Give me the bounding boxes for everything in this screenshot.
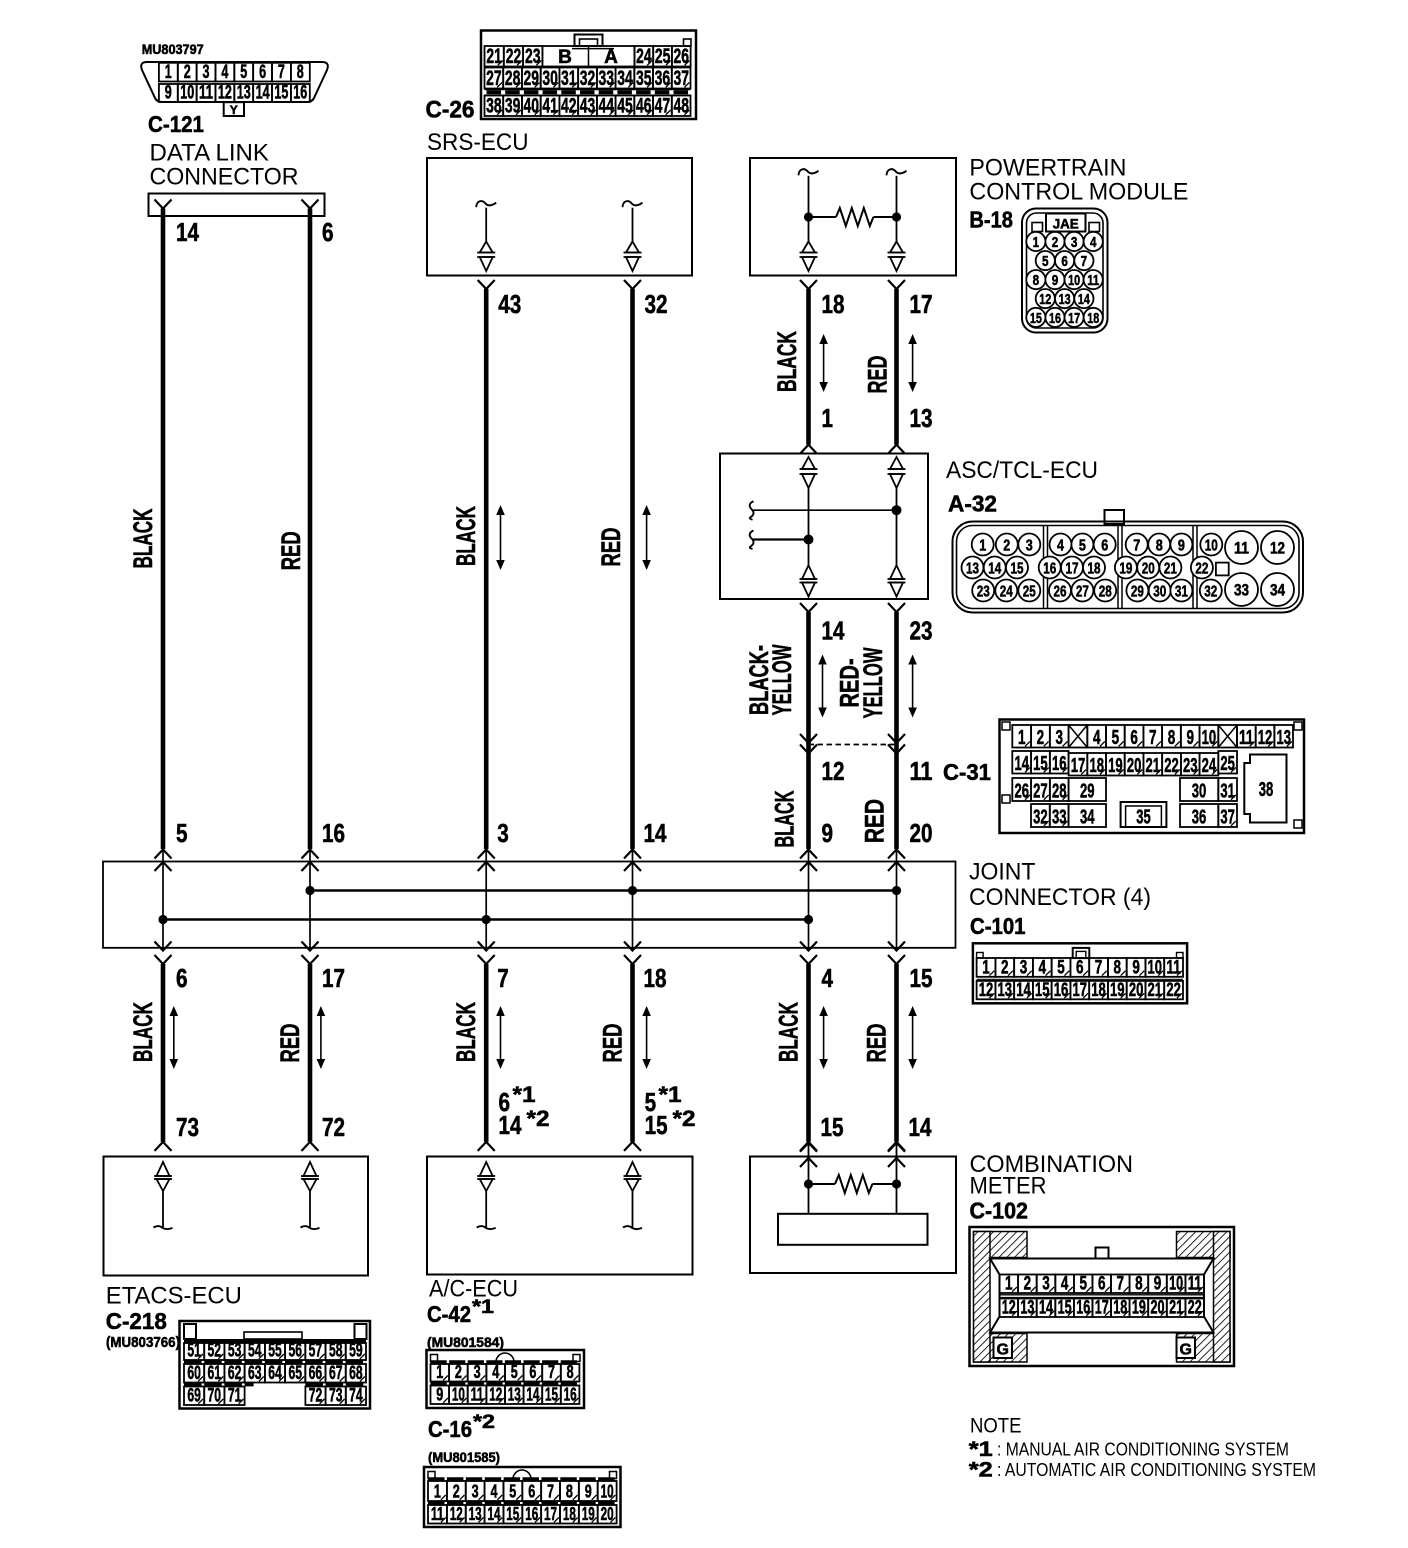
connector A-32 pin diagram [953, 510, 1304, 613]
junction dot bus upper col4 [628, 886, 637, 895]
svg-text:23: 23 [977, 584, 990, 601]
label C-16*2 [428, 1412, 495, 1442]
label C-42*1 [427, 1297, 495, 1327]
svg-text:17: 17 [322, 963, 345, 993]
svg-text:5: 5 [1079, 538, 1086, 555]
svg-text:3: 3 [474, 1362, 481, 1382]
svg-text:5: 5 [1057, 957, 1065, 978]
wire thin inside joint connector x163 [162, 850, 164, 951]
ASC pin 14 connector mark [800, 603, 817, 612]
wire RED PCM17 to ASC13 [894, 289, 899, 445]
arrow lower x310 [320, 1012, 322, 1063]
svg-text:10: 10 [1169, 1274, 1183, 1295]
svg-text:20: 20 [1151, 1298, 1165, 1319]
svg-text:17: 17 [910, 289, 933, 319]
svg-text:15: 15 [910, 963, 933, 993]
svg-text:13: 13 [1276, 727, 1291, 749]
svg-text:48: 48 [673, 95, 689, 118]
junction dot comb meter left [804, 1179, 813, 1188]
connector C-101 pin diagram [973, 943, 1187, 1003]
joint crossing marks bottom edge x163 [155, 942, 172, 965]
wire label RED-YELLOW [835, 647, 888, 718]
ECU entry mark x486.2 [478, 1142, 495, 1151]
svg-text:13: 13 [1020, 1298, 1034, 1319]
resistor inside combination meter [809, 1175, 897, 1193]
svg-text:18: 18 [644, 963, 667, 993]
PCM pin 18 connector mark [800, 280, 817, 289]
svg-text:39: 39 [505, 95, 521, 118]
svg-text:35: 35 [636, 67, 652, 90]
svg-text:27: 27 [1076, 584, 1089, 601]
svg-text:24: 24 [1202, 755, 1217, 777]
wire BLACK-YELLOW ASC14 to C-31 [806, 612, 811, 745]
svg-text:35: 35 [1136, 807, 1151, 829]
svg-text:11: 11 [1166, 957, 1181, 978]
pin label 14*2 col3 [499, 1106, 550, 1140]
svg-text:45: 45 [617, 95, 633, 118]
svg-text:3: 3 [1071, 234, 1078, 251]
svg-text:BLACK: BLACK [770, 790, 800, 847]
svg-text:C-42: C-42 [427, 1301, 471, 1327]
ASC internal stub wire lower [750, 531, 809, 550]
svg-text:22: 22 [506, 45, 522, 68]
svg-text:23: 23 [910, 616, 933, 646]
svg-text:8: 8 [1156, 538, 1163, 555]
svg-text:8: 8 [1114, 957, 1122, 978]
arrow col5 mid [822, 661, 824, 712]
connector C-42 pin diagram [427, 1350, 585, 1408]
svg-text:18: 18 [1087, 310, 1099, 327]
svg-text:3: 3 [203, 62, 210, 83]
svg-text:29: 29 [1131, 584, 1144, 601]
svg-text:41: 41 [542, 95, 558, 118]
svg-text:JOINT: JOINT [969, 859, 1036, 886]
svg-text:14: 14 [988, 561, 1001, 578]
powertrain control module box [750, 158, 956, 276]
svg-text:2: 2 [453, 1482, 460, 1502]
wire thin inside joint connector x896.5 [896, 850, 898, 951]
svg-text:*2: *2 [673, 1106, 696, 1131]
joint bus bar lower [163, 918, 809, 920]
svg-text:20: 20 [1127, 755, 1142, 777]
svg-text:5: 5 [509, 1482, 516, 1502]
svg-text:7: 7 [548, 1362, 555, 1382]
svg-text:38: 38 [1259, 779, 1274, 801]
comb meter internal wire right [896, 1143, 898, 1214]
ASC internal pin symbol right [888, 457, 906, 597]
svg-text:SRS-ECU: SRS-ECU [427, 129, 529, 156]
svg-text:37: 37 [1220, 807, 1235, 829]
svg-text:17: 17 [1071, 755, 1086, 777]
svg-text:33: 33 [598, 67, 614, 90]
svg-text:18: 18 [1089, 755, 1104, 777]
svg-text:28: 28 [505, 67, 521, 90]
svg-text:14: 14 [1016, 980, 1031, 1001]
arrow col6 mid [912, 661, 914, 712]
connector C-102 pin diagram [970, 1227, 1235, 1366]
svg-text:1: 1 [436, 1362, 443, 1382]
svg-text:8: 8 [566, 1482, 573, 1502]
data link connector box [149, 194, 325, 217]
ASC internal pin symbol left [800, 457, 818, 597]
svg-text:6: 6 [259, 62, 266, 83]
svg-text:30: 30 [1153, 584, 1166, 601]
svg-text:14: 14 [822, 616, 845, 646]
svg-text:2: 2 [1024, 1274, 1032, 1295]
connector C-26 pin diagram [481, 31, 696, 120]
ECU entry mark x632.5 [624, 1142, 641, 1151]
svg-text:13: 13 [237, 82, 251, 103]
svg-text:RED: RED [276, 531, 306, 570]
arrow col6 upper [912, 340, 914, 386]
svg-text:12: 12 [218, 82, 232, 103]
svg-text:6: 6 [322, 217, 334, 247]
svg-text:19: 19 [1110, 980, 1125, 1001]
svg-text:*1: *1 [472, 1297, 495, 1318]
svg-text:18: 18 [1091, 980, 1106, 1001]
svg-text:32: 32 [580, 67, 596, 90]
svg-text:1: 1 [982, 957, 990, 978]
joint crossing marks top edge x486.2 [478, 850, 495, 872]
svg-text:16: 16 [1052, 753, 1067, 775]
svg-text:C-121: C-121 [148, 111, 204, 137]
svg-text:18: 18 [1088, 561, 1101, 578]
svg-text:15: 15 [1030, 310, 1042, 327]
svg-text:12: 12 [1039, 291, 1051, 308]
svg-text:BLACK: BLACK [128, 508, 158, 568]
svg-text:16: 16 [1043, 561, 1056, 578]
svg-text:42: 42 [561, 95, 577, 118]
svg-text:3: 3 [1020, 957, 1028, 978]
svg-text:15: 15 [1058, 1298, 1072, 1319]
svg-text:11: 11 [1087, 272, 1099, 289]
svg-text:25: 25 [655, 45, 671, 68]
svg-text:19: 19 [1119, 561, 1132, 578]
svg-text:9: 9 [1186, 727, 1194, 749]
arrow col5 upper [823, 340, 825, 386]
svg-text:7: 7 [1117, 1274, 1125, 1295]
svg-text:73: 73 [176, 1112, 199, 1142]
svg-text:(MU801584): (MU801584) [427, 1335, 504, 1350]
svg-text:9: 9 [1154, 1274, 1162, 1295]
svg-text:17: 17 [1066, 561, 1079, 578]
pin 6 connector mark [302, 200, 319, 209]
svg-text:26: 26 [674, 45, 690, 68]
wire joint to ECU x163 [161, 964, 166, 1142]
joint crossing marks bottom edge x632.5 [624, 942, 641, 965]
svg-text:*1: *1 [659, 1082, 682, 1107]
svg-text:9: 9 [1052, 272, 1059, 289]
svg-text:14: 14 [499, 1110, 522, 1140]
svg-text:13: 13 [1059, 291, 1071, 308]
svg-text:12: 12 [822, 756, 845, 786]
svg-text:3: 3 [497, 818, 509, 848]
svg-text:31: 31 [561, 67, 577, 90]
pin label 15*2 col4 [645, 1106, 696, 1140]
pin 14 connector mark [155, 200, 172, 209]
svg-text:10: 10 [180, 82, 194, 103]
wire BLACK SRS pin43 to joint pin3 [484, 289, 489, 849]
svg-text:24: 24 [636, 45, 652, 68]
svg-text:8: 8 [567, 1362, 574, 1382]
svg-text:G: G [1179, 1342, 1191, 1359]
AC internal pin symbol right [623, 1162, 642, 1229]
svg-text:BLACK: BLACK [772, 331, 802, 392]
svg-text:2: 2 [1052, 234, 1059, 251]
svg-text:26: 26 [1014, 781, 1029, 803]
svg-text:29: 29 [524, 67, 540, 90]
SRS internal pin symbol right [623, 201, 643, 271]
svg-text:CONNECTOR: CONNECTOR [150, 164, 299, 191]
svg-text:2: 2 [1003, 538, 1010, 555]
svg-text:B-18: B-18 [969, 207, 1013, 233]
svg-text:32: 32 [1204, 584, 1217, 601]
svg-text:6: 6 [528, 1482, 535, 1502]
joint bus bar upper [310, 889, 897, 891]
svg-text:3: 3 [1055, 727, 1063, 749]
wire thin inside joint connector x632.5 [632, 850, 634, 951]
svg-text:40: 40 [524, 95, 540, 118]
joint crossing marks bottom edge x310 [302, 942, 319, 965]
svg-text:20: 20 [1142, 561, 1155, 578]
wire RED SRS pin32 to joint pin14 [630, 289, 635, 849]
comb meter entry marks right [888, 1143, 905, 1167]
svg-text:12: 12 [1270, 539, 1285, 558]
svg-text:ETACS-ECU: ETACS-ECU [106, 1283, 242, 1310]
svg-text:5: 5 [511, 1362, 518, 1382]
svg-text:8: 8 [1033, 272, 1040, 289]
svg-text:9: 9 [822, 818, 834, 848]
wire joint to ECU x632.5 [630, 964, 635, 1142]
svg-text:17: 17 [1095, 1298, 1109, 1319]
svg-text:14: 14 [1039, 1298, 1053, 1319]
arrow lower x163 [173, 1012, 175, 1063]
svg-text:BLACK: BLACK [451, 1002, 481, 1062]
svg-text:20: 20 [1129, 980, 1144, 1001]
svg-text:34: 34 [1270, 581, 1285, 600]
svg-text:30: 30 [1192, 781, 1207, 803]
svg-text:(MU803766): (MU803766) [106, 1335, 180, 1351]
comb meter internal wire left [808, 1143, 810, 1214]
wire BLACK C-31 pin12 to joint pin9 [806, 745, 811, 850]
svg-text:14: 14 [1078, 291, 1090, 308]
svg-text:2: 2 [1037, 727, 1045, 749]
svg-text:25: 25 [1023, 584, 1036, 601]
svg-text:16: 16 [293, 82, 307, 103]
wire BLACK DLC pin14 to joint connector pin5 [161, 209, 166, 850]
svg-text:15: 15 [1033, 753, 1048, 775]
SRS-ECU box [427, 158, 692, 276]
svg-text:21: 21 [1146, 755, 1161, 777]
svg-text:21: 21 [1169, 1298, 1183, 1319]
wire joint to ECU x310 [308, 964, 313, 1142]
svg-text:*2: *2 [527, 1106, 550, 1131]
ECU entry mark x163 [155, 1142, 172, 1151]
svg-text:12: 12 [979, 980, 994, 1001]
svg-text:16: 16 [322, 818, 345, 848]
svg-text:Y: Y [230, 103, 238, 117]
svg-text:4: 4 [1057, 538, 1064, 555]
svg-text:30: 30 [542, 67, 558, 90]
svg-text:22: 22 [1188, 1298, 1202, 1319]
svg-text:32: 32 [1033, 807, 1048, 829]
svg-text:POWERTRAIN: POWERTRAIN [969, 155, 1126, 182]
svg-text:11: 11 [1234, 539, 1249, 558]
ETACS-ECU box [104, 1157, 369, 1276]
svg-text:6: 6 [1061, 253, 1068, 270]
svg-text:5: 5 [176, 818, 188, 848]
svg-text:34: 34 [617, 67, 633, 90]
svg-text:7: 7 [278, 62, 285, 83]
svg-text:3: 3 [472, 1482, 479, 1502]
svg-text:8: 8 [1168, 727, 1176, 749]
svg-text:JAE: JAE [1053, 216, 1079, 232]
ECU entry mark x310 [302, 1142, 319, 1151]
PCM internal pin symbol left [799, 169, 819, 271]
svg-text:4: 4 [491, 1482, 498, 1502]
ASC pin 13 connector mark [888, 445, 905, 454]
svg-text:38: 38 [486, 95, 502, 118]
svg-text:RED: RED [860, 799, 890, 843]
svg-text:6: 6 [1130, 727, 1138, 749]
svg-text:C-218: C-218 [106, 1308, 167, 1334]
svg-text:METER: METER [970, 1173, 1047, 1200]
svg-text:14: 14 [1014, 753, 1029, 775]
svg-text:: MANUAL AIR CONDITIONING SYST: : MANUAL AIR CONDITIONING SYSTEM [997, 1439, 1289, 1460]
AC internal pin symbol left [477, 1162, 496, 1229]
svg-text:46: 46 [636, 95, 652, 118]
svg-text:22: 22 [1166, 980, 1181, 1001]
svg-text:10: 10 [1202, 727, 1217, 749]
connector C-16 pin diagram [424, 1467, 621, 1527]
svg-text:A-32: A-32 [948, 491, 997, 517]
svg-text:25: 25 [1220, 753, 1235, 775]
svg-text:31: 31 [1175, 584, 1188, 601]
comb meter entry marks left [800, 1143, 817, 1167]
ASC pin 23 connector mark [888, 603, 905, 612]
wire thin inside joint connector x486.2 [485, 850, 487, 951]
svg-text:7: 7 [1133, 538, 1140, 555]
svg-text:12: 12 [1258, 727, 1273, 749]
svg-text:G: G [996, 1342, 1008, 1359]
wire joint to ECU x896.5 [894, 964, 899, 1142]
svg-text:12: 12 [1002, 1298, 1016, 1319]
svg-text:*2: *2 [473, 1412, 495, 1433]
svg-text:33: 33 [1234, 581, 1249, 600]
svg-text:1: 1 [979, 538, 986, 555]
svg-text:RED: RED [596, 528, 626, 567]
svg-text:11: 11 [1239, 727, 1254, 749]
svg-text:10: 10 [1205, 538, 1218, 555]
svg-text:15: 15 [274, 82, 288, 103]
svg-text:RED: RED [862, 1024, 892, 1063]
joint crossing marks bottom edge x896.5 [888, 942, 905, 965]
svg-text:23: 23 [525, 45, 541, 68]
SRS internal pin symbol left [476, 201, 496, 271]
svg-text:NOTE: NOTE [970, 1414, 1022, 1438]
svg-text:6: 6 [176, 963, 188, 993]
svg-text:44: 44 [598, 95, 614, 118]
svg-text:14: 14 [176, 217, 199, 247]
svg-text:1: 1 [434, 1482, 441, 1502]
svg-text:18: 18 [822, 289, 845, 319]
resistor inside PCM [809, 208, 897, 226]
junction dot bus lower col1 [158, 915, 167, 924]
ECU entry mark x808.5 [800, 1142, 817, 1151]
wire joint to ECU x808.5 [806, 964, 811, 1142]
svg-text:9: 9 [585, 1482, 592, 1502]
svg-text:15: 15 [821, 1112, 844, 1142]
arrow lower x632.5 [646, 1012, 648, 1063]
connector B-18 pin diagram [1022, 209, 1108, 333]
joint crossing marks top edge x632.5 [624, 850, 641, 872]
joint crossing marks top edge x808.5 [800, 850, 817, 872]
connector C-31 pin diagram [1000, 720, 1305, 834]
svg-text:YELLOW: YELLOW [858, 647, 888, 718]
svg-text:2: 2 [184, 62, 191, 83]
joint crossing marks bottom edge x808.5 [800, 942, 817, 965]
svg-text:14: 14 [256, 82, 270, 103]
wire BLACK PCM18 to ASC1 [806, 289, 811, 445]
svg-text:19: 19 [1132, 1298, 1146, 1319]
gauge rectangle inside combination meter [778, 1214, 928, 1245]
svg-text:16: 16 [1054, 980, 1069, 1001]
svg-text:47: 47 [655, 95, 671, 118]
svg-text:36: 36 [655, 67, 671, 90]
svg-text:26: 26 [1054, 584, 1067, 601]
svg-text:6: 6 [1098, 1274, 1106, 1295]
combination meter box [750, 1157, 956, 1274]
wire RED C-31 pin11 to joint pin20 [894, 745, 899, 850]
junction dot bus upper col6 [892, 886, 901, 895]
ASC/TCL-ECU box [720, 454, 928, 600]
svg-text:*2: *2 [969, 1459, 993, 1482]
C-31 crossing mark left wire [800, 734, 817, 754]
joint connector C-101 box [103, 862, 956, 948]
svg-text:4: 4 [822, 963, 834, 993]
svg-text:15: 15 [1035, 980, 1050, 1001]
wire RED-YELLOW ASC23 to C-31 [894, 612, 899, 745]
svg-text:16: 16 [1049, 310, 1061, 327]
svg-text:4: 4 [221, 62, 228, 83]
wire joint to ECU x486.2 [484, 964, 489, 1142]
svg-text:13: 13 [966, 561, 979, 578]
svg-text:1: 1 [1018, 727, 1026, 749]
svg-text:22: 22 [1195, 561, 1208, 578]
arrow lower x896.5 [912, 1012, 914, 1063]
svg-text:(MU801585): (MU801585) [428, 1450, 500, 1465]
svg-text:2: 2 [455, 1362, 462, 1382]
svg-text:37: 37 [673, 67, 689, 90]
svg-text:2: 2 [1001, 957, 1009, 978]
svg-text:C-16: C-16 [428, 1416, 472, 1442]
svg-text:11: 11 [1188, 1274, 1202, 1295]
svg-text:34: 34 [1080, 807, 1095, 829]
svg-text:17: 17 [1068, 310, 1080, 327]
svg-text:C-101: C-101 [970, 913, 1026, 939]
svg-text:7: 7 [547, 1482, 554, 1502]
svg-text:7: 7 [1081, 253, 1088, 270]
svg-text:9: 9 [436, 1385, 443, 1405]
svg-text:31: 31 [1220, 781, 1235, 803]
note line 2 [969, 1459, 1316, 1482]
svg-text:1: 1 [1033, 234, 1040, 251]
svg-text:16: 16 [1076, 1298, 1090, 1319]
C-31 crossing mark right wire [888, 734, 905, 754]
svg-text:CONNECTOR (4): CONNECTOR (4) [969, 884, 1151, 911]
svg-text:22: 22 [1164, 755, 1179, 777]
svg-text:8: 8 [1135, 1274, 1143, 1295]
